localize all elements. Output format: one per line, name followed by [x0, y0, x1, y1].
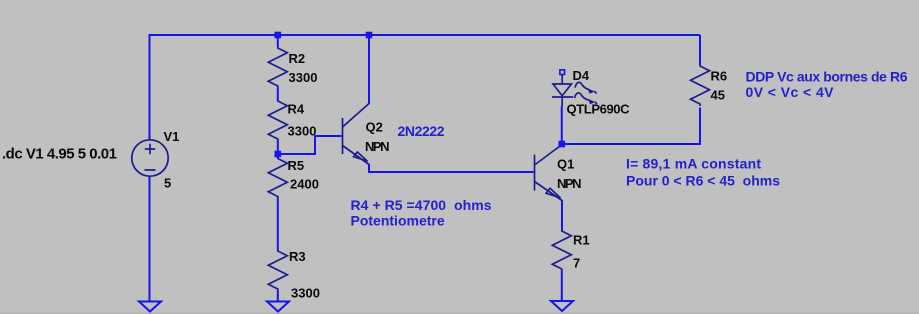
svg-text:I= 89,1 mA constant: I= 89,1 mA constant [626, 156, 761, 172]
ground under V1 [139, 302, 161, 312]
resistor R5 [268, 157, 287, 198]
svg-text:R3: R3 [289, 249, 306, 264]
wire collector node to R6 bottom [562, 108, 700, 145]
svg-text:3300: 3300 [288, 124, 317, 139]
wire V1 to ground [149, 177, 151, 302]
wire R4 to R5 through tap node [277, 141, 279, 159]
svg-text:NPN: NPN [557, 176, 582, 191]
wire Q1 emitter to R1 [561, 200, 563, 230]
svg-text:R1: R1 [573, 233, 590, 248]
bottom edge shade [0, 313, 919, 314]
transistor Q2 [343, 104, 370, 165]
svg-text:3300: 3300 [289, 70, 318, 85]
svg-text:2400: 2400 [290, 177, 319, 192]
transistor Q1 [535, 145, 563, 201]
junction node top of R2 [275, 32, 282, 39]
junction node Q2 collector on top rail [366, 32, 373, 39]
wire D4 cathode to collector node [561, 106, 563, 144]
resistor R2 [268, 46, 287, 88]
ground under R3 [267, 302, 289, 312]
resistor R3 [268, 250, 287, 292]
wire Q2 emitter to Q1 base [369, 164, 534, 172]
svg-text:R4: R4 [288, 102, 305, 117]
svg-text:5: 5 [164, 176, 171, 191]
wire tap to Q2 base [278, 136, 342, 154]
svg-text:.dc V1 4.95 5 0.01: .dc V1 4.95 5 0.01 [2, 146, 117, 163]
svg-text:QTLP690C: QTLP690C [567, 102, 631, 117]
wire top rail [150, 35, 701, 140]
junction node D4/Q1/R6 [559, 141, 566, 148]
wire Q2 collector to top rail [368, 35, 370, 104]
wire rail to R2 [277, 36, 279, 47]
svg-text:R2: R2 [289, 51, 306, 66]
wire R2 to R4 [277, 88, 279, 101]
svg-text:D4: D4 [573, 68, 590, 83]
LED D4 [552, 74, 597, 107]
wire R1 to ground [561, 271, 563, 302]
resistor R1 [552, 230, 571, 272]
svg-text:DDP Vc aux bornes de R6: DDP Vc aux bornes de R6 [746, 69, 908, 85]
svg-text:NPN: NPN [365, 139, 390, 154]
svg-text:45: 45 [711, 88, 725, 103]
junction node R4/R5 tap [275, 151, 282, 158]
wire R5 to R3 [277, 198, 279, 251]
ground under R1 [551, 301, 573, 311]
svg-text:Pour 0 < R6 < 45 ohms: Pour 0 < R6 < 45 ohms [626, 173, 780, 189]
svg-text:V1: V1 [164, 129, 180, 144]
wire top rail down to R6 [699, 35, 701, 65]
voltage source V1 [132, 140, 168, 176]
node floating pin square above D4 [560, 70, 565, 75]
svg-text:2N2222: 2N2222 [398, 123, 445, 139]
svg-text:Q2: Q2 [366, 120, 383, 135]
svg-text:R4 + R5 =4700 ohms: R4 + R5 =4700 ohms [351, 197, 492, 213]
svg-text:3300: 3300 [291, 286, 320, 301]
resistor R4 [268, 100, 287, 142]
wire R3 to ground [277, 291, 279, 302]
svg-text:R5: R5 [288, 158, 305, 173]
resistor R6 [691, 64, 710, 106]
svg-text:Q1: Q1 [557, 157, 574, 172]
svg-text:7: 7 [573, 256, 580, 271]
svg-text:0V < Vc < 4V: 0V < Vc < 4V [746, 84, 835, 100]
svg-text:R6: R6 [711, 69, 728, 84]
svg-text:Potentiometre: Potentiometre [351, 213, 445, 229]
